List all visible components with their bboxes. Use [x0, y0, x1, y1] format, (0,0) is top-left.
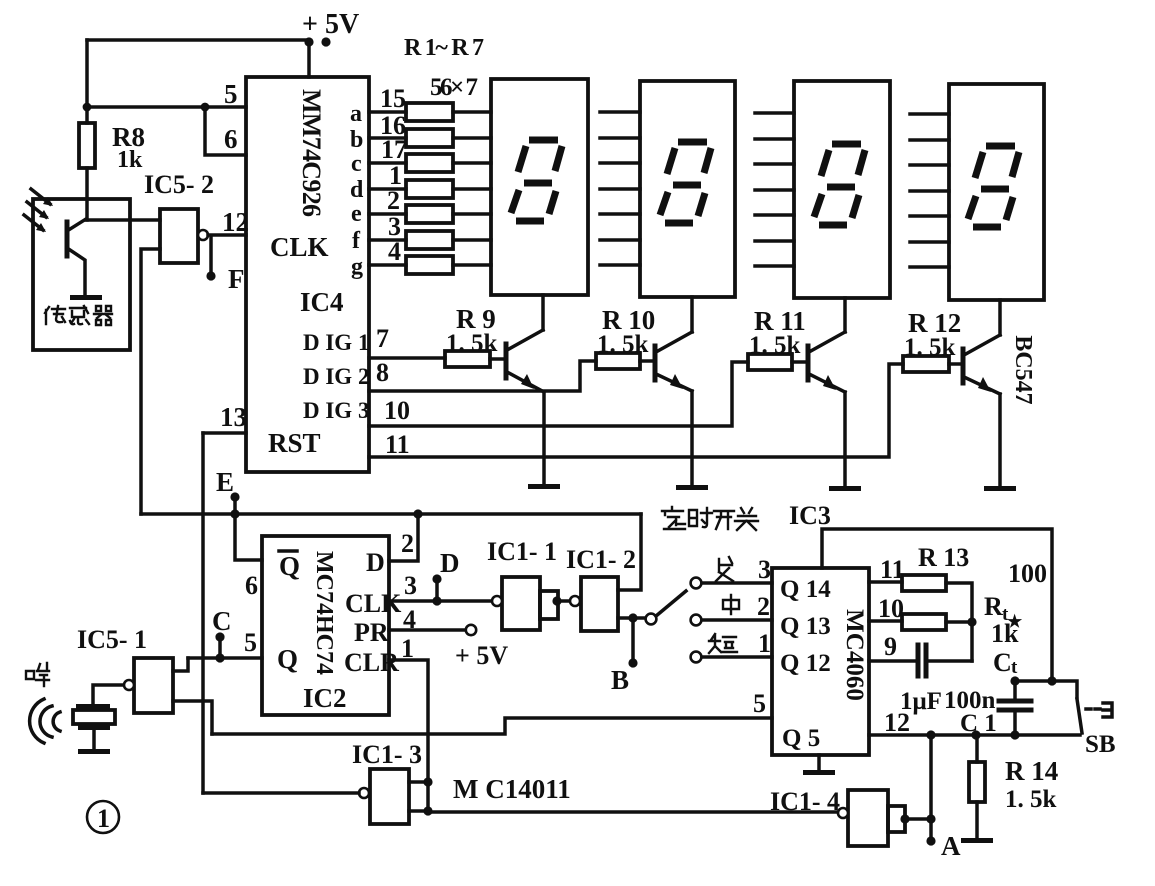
svg-text:e: e [351, 201, 362, 227]
svg-text:13: 13 [220, 402, 247, 432]
svg-text:1: 1 [97, 804, 110, 833]
op-amp U IC2 MC74HC74 box [262, 536, 389, 715]
junction dot +5V b [321, 37, 330, 46]
svg-text:a: a [350, 101, 362, 127]
wire resnet out b [453, 136, 491, 140]
wire IC2 pin2 D to E row [389, 514, 418, 561]
wire resnet out a [453, 110, 491, 114]
svg-text:CLK: CLK [345, 589, 402, 618]
svg-text:SB: SB [1085, 731, 1116, 758]
wire top rail [87, 38, 309, 42]
op-amp IC1-2 [581, 577, 618, 631]
node D tick [435, 579, 439, 601]
resistor R8 [79, 123, 95, 168]
junction dot IC1-4 out [926, 814, 935, 823]
svg-text:f: f [352, 228, 361, 254]
switch SB actuator E mark [1103, 703, 1112, 717]
svg-text:R 14: R 14 [1005, 756, 1058, 786]
wire IC1-2 output [618, 616, 646, 620]
svg-text:+ 5V: + 5V [455, 641, 508, 670]
wire left rail down to R8 [85, 40, 89, 123]
wire R14 top [975, 735, 979, 762]
svg-text:10: 10 [878, 594, 904, 623]
svg-text:MM74C926: MM74C926 [297, 89, 326, 217]
op-amp IC5-2 [160, 209, 198, 263]
op-amp IC1-4 [848, 790, 888, 846]
switch throw circle 1 short [691, 652, 702, 663]
svg-text:E: E [216, 467, 234, 497]
display DS2 stub wires [600, 112, 640, 265]
svg-text:100: 100 [1008, 559, 1047, 588]
junction dot Ct left [1010, 676, 1019, 685]
wire DS2 pin to Q2 collector [690, 297, 694, 332]
op-amp IC5-1 [134, 658, 173, 713]
display DS4 digit [968, 146, 1019, 227]
IC1-1 output stub [540, 591, 558, 619]
wire IC1-3 input [203, 791, 359, 795]
wire pin12 row [869, 733, 1080, 737]
node A dot [926, 836, 935, 845]
svg-text:3: 3 [758, 555, 771, 584]
wire IC5-2 to CLK pin12 [208, 233, 246, 237]
wire pin 6 loop [205, 107, 246, 155]
junction dot pin12 a [926, 730, 935, 739]
svg-text:D IG 2: D IG 2 [303, 364, 369, 389]
switch lever [656, 591, 686, 616]
svg-text:Q: Q [277, 644, 298, 674]
svg-text:1k: 1k [117, 147, 143, 173]
junction dot pin12 c [1010, 730, 1019, 739]
wire IC2 pin5 row [188, 656, 262, 660]
junction dot IC1-3 b [423, 806, 432, 815]
svg-text:+ 5V: + 5V [302, 9, 359, 40]
wire node E row [141, 512, 641, 516]
svg-text:1. 5k: 1. 5k [1005, 786, 1057, 813]
svg-text:D: D [366, 548, 385, 577]
resistor R12 [903, 356, 949, 372]
svg-text:2: 2 [401, 529, 414, 558]
wire IC1-4 out [905, 817, 931, 821]
IC1-2 input bubble [570, 596, 580, 606]
switch SB dashes [1086, 707, 1100, 711]
switch throw circle 2 middle [691, 615, 702, 626]
display DS3 box [794, 81, 890, 298]
junction dot IC1-3 a [423, 777, 432, 786]
wire PR pin4 [389, 628, 466, 632]
svg-text:D IG 3: D IG 3 [303, 398, 369, 423]
wire R13 to rail [946, 583, 972, 661]
wire IC1-3 out bottom stub [409, 809, 428, 813]
terminal PR open circle [466, 625, 476, 635]
svg-text:R 13: R 13 [918, 543, 969, 572]
light arrow 3 [24, 215, 43, 230]
switch SB top stub [1052, 681, 1077, 697]
label 短 [709, 634, 737, 653]
phototransistor collector [67, 219, 86, 231]
wire seg f [369, 238, 406, 242]
junction dot pin6 loop [201, 103, 210, 112]
node B dot [628, 658, 637, 667]
junction dot IC1-4 stub [900, 814, 909, 823]
svg-text:10: 10 [384, 396, 410, 425]
wire DIG2 row pin8 [369, 361, 596, 391]
transistor Q1 [504, 344, 509, 378]
wire throw2 [702, 618, 772, 622]
wire seg b [369, 136, 406, 140]
junction dot E on row [230, 509, 239, 518]
svg-text:Q 14: Q 14 [780, 576, 831, 603]
ground speaker [78, 749, 110, 754]
svg-text:IC3: IC3 [789, 501, 831, 530]
wire IC1-1 to IC1-2 [558, 599, 570, 603]
wire seg e [369, 212, 406, 216]
wire throw1 [702, 655, 772, 659]
svg-text:2: 2 [757, 592, 770, 621]
sensor box [33, 199, 130, 350]
op-amp U IC4 MM74C926 box [246, 77, 369, 472]
wire resnet out c [453, 161, 491, 165]
junction dot +5V a [304, 37, 313, 46]
svg-text:MC74HC74: MC74HC74 [311, 551, 337, 675]
junction dot D-pin rail [413, 509, 422, 518]
display DS3 stub wires [755, 113, 794, 266]
svg-text:1k: 1k [991, 619, 1019, 648]
wire +5V to IC4 top [307, 42, 311, 77]
wire R8 to sensor [85, 168, 89, 220]
IC1-3 input bubble [359, 788, 369, 798]
node E tick [233, 497, 237, 514]
junction dot B rail [628, 613, 637, 622]
svg-text:CLR: CLR [344, 648, 399, 677]
svg-text:7: 7 [376, 324, 389, 353]
wire DIG1 row pin7 [369, 356, 445, 360]
svg-text:Q 13: Q 13 [780, 613, 831, 640]
display DS3 digit [814, 144, 865, 225]
speaker piezo [93, 685, 124, 705]
resistor R11 [748, 354, 792, 370]
op-amp IC1-3 [370, 769, 409, 824]
wire DS3 pin to Q3 collector [843, 298, 847, 332]
wire IC1-3 to IC1-4 [428, 810, 838, 814]
resistor Rt [902, 614, 946, 630]
label 哔 [26, 663, 49, 686]
svg-text:IC4: IC4 [300, 287, 344, 317]
label 中 [723, 595, 739, 614]
wire throw3 [702, 581, 772, 585]
svg-text:2: 2 [387, 186, 400, 215]
wire IC5-2 input2 from E rail [141, 249, 160, 514]
wire IC5-1 out bottom [173, 701, 212, 734]
svg-text:IC1- 2: IC1- 2 [566, 545, 636, 574]
wire pin11 row [869, 580, 902, 584]
light arrow 2 [27, 202, 46, 217]
wire IC1-2 feedback to E row [618, 514, 641, 590]
node B tick [631, 618, 635, 663]
junction dot pin12 b [971, 730, 980, 739]
wire Q2 emitter to ground [690, 391, 694, 487]
svg-text:12: 12 [884, 708, 910, 737]
wire resnet out g [453, 263, 491, 267]
svg-text:8: 8 [376, 358, 389, 387]
capacitor Ct plates [1013, 681, 1017, 701]
wire cap to rail [929, 659, 972, 663]
junction dot pin3 [432, 596, 441, 605]
svg-text:6: 6 [224, 124, 238, 154]
wire collector to IC5-2 input1 [86, 218, 160, 222]
svg-text:D IG 1: D IG 1 [303, 330, 369, 355]
wire seg a [369, 110, 406, 114]
wire IC1-3 out top stub [409, 780, 428, 784]
wire E row to IC2 pin6 [235, 514, 262, 560]
switch pole circle [646, 614, 657, 625]
ground Q4 [984, 486, 1016, 491]
IC1-1 input bubble [492, 596, 502, 606]
wire pin 5 row [87, 105, 246, 109]
svg-text:D: D [440, 548, 460, 578]
svg-text:M C14011: M C14011 [453, 774, 571, 804]
wire DS1 pin to Q1 collector [541, 295, 545, 330]
wire Q4 emitter to ground [998, 394, 1002, 488]
svg-text:1. 5k: 1. 5k [446, 330, 498, 357]
wire Ct top rail [1015, 679, 1052, 683]
junction dot pin5 [215, 653, 224, 662]
transistor Q3 [806, 346, 811, 380]
svg-text:1. 5k: 1. 5k [749, 332, 801, 359]
svg-text:c: c [351, 151, 362, 177]
resistor network R1-R7 [406, 103, 453, 274]
svg-text:BC547: BC547 [1010, 335, 1036, 404]
svg-text:Q 5: Q 5 [782, 725, 820, 752]
display DS4 box [949, 84, 1044, 300]
wire pin13 row [203, 431, 246, 435]
svg-text:15: 15 [380, 84, 406, 113]
junction dot Ct right [1047, 676, 1056, 685]
svg-text:A: A [941, 831, 961, 861]
svg-text:g: g [351, 254, 363, 280]
wire long vertical RST rail [201, 433, 205, 793]
ground Q1 [528, 484, 560, 489]
ground sensor [70, 295, 102, 300]
svg-text:5: 5 [753, 689, 766, 718]
IC1-4 input bubble [838, 808, 848, 818]
wire IC1-4 out rail [929, 735, 933, 841]
svg-text:Q 12: Q 12 [780, 650, 831, 677]
resistor R10 [596, 353, 640, 369]
svg-text:IC1- 4: IC1- 4 [770, 787, 840, 816]
wire Rt to rail [946, 620, 972, 624]
svg-text:5: 5 [244, 628, 257, 657]
svg-text:9: 9 [884, 632, 897, 661]
svg-text:IC1- 1: IC1- 1 [487, 537, 557, 566]
node C dot [215, 632, 224, 641]
wire DIG3 row pin10 [369, 362, 748, 426]
capacitor C osc 1uF [916, 645, 921, 676]
svg-text:B: B [611, 665, 629, 695]
display DS1 digit [511, 140, 562, 221]
wire Q1 emitter to ground [542, 392, 546, 486]
phototransistor base bar [65, 222, 70, 256]
IC5-2 output bubble [198, 230, 208, 240]
junction dot pin5 rail [83, 103, 92, 112]
wire seg g [369, 263, 406, 267]
transistor Q2 [653, 346, 658, 380]
ground MC4060 [803, 770, 835, 775]
junction dot IC1-1 out [552, 596, 561, 605]
label 长 [716, 557, 733, 581]
svg-text:C: C [993, 648, 1012, 677]
wire pin10 row [869, 619, 902, 623]
svg-text:5: 5 [224, 79, 238, 109]
svg-text:1. 5k: 1. 5k [904, 334, 956, 361]
wire resnet out d [453, 187, 491, 191]
IC1-4 output stub [888, 806, 905, 832]
wire DS4 pin to Q4 collector [998, 300, 1002, 335]
node C tick [218, 637, 222, 658]
wire pin9 row [869, 659, 914, 663]
phototransistor emitter [67, 248, 85, 295]
svg-text:3: 3 [404, 571, 417, 600]
svg-text:17: 17 [381, 135, 407, 164]
figure mark 1 circled [87, 801, 119, 833]
svg-text:t: t [1011, 657, 1018, 678]
node D dot [432, 574, 441, 583]
switch SB lever [1077, 699, 1082, 733]
transistor Q4 BC547 [961, 349, 966, 383]
wire Q5 row from IC5-1 [212, 718, 772, 734]
wire CLK row pin3 [389, 599, 492, 603]
wire seg c [369, 161, 406, 165]
svg-text:IC1- 3: IC1- 3 [352, 740, 422, 769]
wire seg d [369, 187, 406, 191]
label 传感器 [45, 306, 112, 325]
display DS2 digit [660, 142, 711, 223]
svg-text:1: 1 [758, 629, 771, 658]
resistor R13 [902, 575, 946, 591]
svg-text:b: b [350, 127, 363, 153]
svg-text:IC2: IC2 [303, 683, 347, 713]
node F dot [206, 271, 215, 280]
node E dot [230, 492, 239, 501]
svg-text:1. 5k: 1. 5k [597, 331, 649, 358]
svg-text:6: 6 [245, 571, 258, 600]
display DS2 box [640, 81, 735, 297]
IC5-1 input bubble [124, 680, 134, 690]
svg-text:R: R [984, 592, 1003, 621]
svg-text:C: C [212, 606, 232, 636]
svg-text:11: 11 [385, 430, 410, 459]
wire Q3 emitter to ground [843, 392, 847, 488]
wire IC3 top to Ct rail [822, 529, 1052, 681]
svg-text:56× 7: 56× 7 [430, 74, 478, 101]
resistor R14 [969, 762, 985, 802]
op-amp U IC3 MC4060 box [772, 568, 869, 755]
wire pin11 row [369, 364, 903, 457]
resistor R9 [445, 351, 490, 367]
svg-text:MC4060: MC4060 [841, 609, 868, 701]
svg-text:CLK: CLK [270, 232, 329, 262]
ground MC4060 stub [817, 755, 821, 771]
wire resnet out f [453, 238, 491, 242]
svg-text:IC5- 1: IC5- 1 [77, 625, 147, 654]
label 定时开关 [662, 507, 758, 530]
wire resnet out e [453, 212, 491, 216]
svg-text:4: 4 [388, 237, 401, 266]
display DS1 box [491, 79, 588, 295]
svg-text:R 1~ R 7: R 1~ R 7 [404, 35, 484, 61]
wire R14 bottom [975, 802, 979, 839]
junction dot rail [967, 617, 976, 626]
node F tick [209, 237, 213, 276]
wire CLR pin1 to IC1-3 [389, 660, 428, 811]
svg-text:F: F [228, 264, 245, 294]
svg-text:RST: RST [268, 428, 321, 458]
op-amp IC1-1 [502, 577, 540, 630]
ground Q3 [829, 486, 861, 491]
speaker arcs [30, 699, 44, 743]
svg-text:IC5- 2: IC5- 2 [144, 170, 214, 199]
svg-text:PR: PR [354, 618, 389, 647]
ground Q2 [676, 485, 708, 490]
wire IC5-1 out top to pin5 row [173, 658, 188, 671]
light arrow 1 [31, 189, 50, 204]
svg-text:Q: Q [279, 551, 300, 581]
ground R14 [961, 838, 993, 843]
display DS4 stub wires [910, 114, 949, 267]
svg-text:d: d [350, 177, 364, 203]
switch throw circle 3 long [691, 578, 702, 589]
